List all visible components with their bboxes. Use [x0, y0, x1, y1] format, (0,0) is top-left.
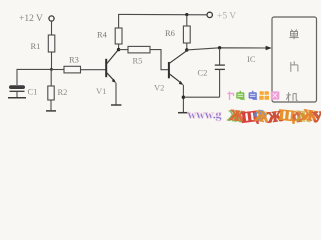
- resistor R1: [48, 35, 55, 52]
- wire terminal to R1: [51, 21, 53, 35]
- svg-text:R1: R1: [31, 41, 41, 51]
- watermark 网 (pink): [271, 91, 280, 99]
- svg-text:R5: R5: [133, 56, 143, 66]
- resistor R6: [183, 26, 190, 43]
- wire R6 to node C: [186, 43, 188, 50]
- wire node A to C1: [17, 69, 51, 85]
- label 机: [286, 92, 297, 101]
- node rail-R6: [185, 13, 188, 16]
- capacitor C1: [9, 85, 25, 89]
- resistor R3: [64, 66, 81, 73]
- node C: [185, 48, 188, 51]
- label 单: [289, 30, 298, 40]
- wire node B to R5: [119, 49, 128, 51]
- svg-text:+5 V: +5 V: [217, 12, 236, 22]
- transistor V2: [154, 51, 187, 93]
- wire R1 to node A: [51, 52, 53, 69]
- transistor V1: [96, 49, 119, 96]
- ground (C1): [8, 97, 26, 99]
- label 片: [291, 61, 298, 72]
- wire V2 emitter down to ground: [182, 85, 184, 113]
- svg-text:C2: C2: [198, 68, 208, 78]
- MCU box (单片机): [272, 17, 317, 102]
- wire R4 to node B: [118, 44, 120, 50]
- wire node E to C2: [219, 48, 221, 65]
- resistor R5: [128, 46, 150, 53]
- wire rail to R6: [186, 15, 188, 26]
- watermark 器 (orange): [259, 91, 269, 100]
- ground (V1): [111, 104, 121, 106]
- svg-text:C1: C1: [28, 87, 38, 97]
- ground (V2): [178, 112, 189, 114]
- svg-text:V2: V2: [154, 83, 164, 93]
- watermark colored tail: [227, 107, 321, 126]
- watermark 电 (blue): [249, 91, 258, 99]
- terminal +12V: [49, 16, 54, 21]
- wire node D to C2 bottom: [183, 96, 219, 98]
- svg-text:R4: R4: [97, 30, 108, 40]
- wire R5 to V2 base: [150, 50, 168, 70]
- wire node A to R2: [50, 69, 52, 86]
- svg-text:R3: R3: [69, 55, 79, 65]
- terminal +5V: [207, 12, 212, 17]
- wire node C to IC box: [187, 48, 267, 50]
- svg-text:R2: R2: [58, 87, 68, 97]
- node B: [117, 48, 120, 51]
- svg-text:www.g: www.g: [188, 108, 223, 122]
- wire V1 emitter down: [115, 83, 117, 105]
- capacitor C2: [215, 64, 225, 66]
- svg-text:+12 V: +12 V: [19, 14, 43, 24]
- resistor R2: [48, 86, 54, 100]
- wire C2 to node D rail: [219, 69, 221, 97]
- arrow into IC box: [266, 46, 272, 51]
- resistor R4: [115, 28, 122, 44]
- svg-text:IC: IC: [247, 54, 256, 64]
- wire R3 to V1 base: [81, 69, 106, 71]
- wire R2 to ground: [50, 100, 52, 110]
- node A: [50, 68, 53, 71]
- svg-text:V1: V1: [96, 86, 106, 96]
- node D (emitter / C2 bottom): [182, 96, 185, 99]
- top rail +5V: [119, 14, 207, 28]
- watermark 电 (green): [236, 91, 245, 99]
- svg-text:У: У: [312, 109, 321, 124]
- ground (R2): [46, 110, 56, 112]
- wire node A to R3: [51, 69, 64, 71]
- svg-text:R6: R6: [165, 28, 175, 38]
- watermark 广: [228, 92, 234, 101]
- node E (C2 top): [218, 46, 221, 49]
